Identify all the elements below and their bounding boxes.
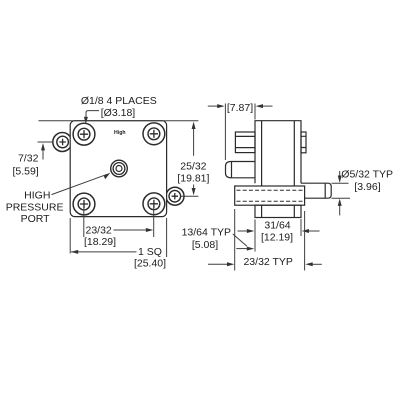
right tab inner lines (301, 136, 306, 147)
svg-text:PRESSURE: PRESSURE (6, 201, 64, 213)
svg-text:[3.96]: [3.96] (354, 181, 380, 193)
dim 1 SQ arrowhead left (71, 250, 78, 254)
left ear tab circle (53, 133, 72, 152)
svg-text:[12.19]: [12.19] (261, 232, 293, 244)
dim 23/32 TYP right arrow line (309, 263, 322, 265)
right ear tab circle (166, 187, 184, 205)
svg-text:25/32: 25/32 (180, 161, 206, 173)
svg-text:13/64 TYP: 13/64 TYP (182, 227, 231, 239)
svg-text:23/32 TYP: 23/32 TYP (243, 256, 292, 268)
svg-text:23/32: 23/32 (86, 224, 112, 236)
svg-text:[25.40]: [25.40] (134, 258, 166, 270)
right ear hole (169, 190, 181, 202)
hole TR (143, 123, 165, 145)
dim 7.87 left arrow line (208, 105, 221, 107)
ext line port bottom (332, 197, 351, 199)
ext line base plate left down (234, 209, 236, 271)
port tip cap (325, 183, 331, 198)
dia 5/32 upper arrow line (339, 171, 341, 176)
hole BL (73, 193, 95, 215)
dim 7/32 arrow line (42, 150, 44, 160)
svg-text:7/32: 7/32 (18, 152, 39, 164)
dim 13/64 leader diagonal (233, 234, 247, 246)
ext line base plate right down (304, 211, 306, 271)
dim 25/32 arrowhead down (192, 188, 196, 195)
dim 31/64 arrowhead left (302, 229, 309, 233)
dim 7.87 arrowhead right (217, 104, 224, 108)
dim 31/64 left arrow line (238, 230, 251, 232)
dim 13/64 arrowhead lower (247, 247, 254, 251)
dim 7/32 arrowhead up (41, 143, 45, 150)
hole BR (143, 193, 165, 215)
left stub boss (226, 162, 256, 178)
svg-text:[19.81]: [19.81] (177, 173, 209, 185)
port tube (301, 183, 325, 198)
dim 23/32 TYP arrowhead left (305, 262, 312, 266)
svg-text:[7.87]: [7.87] (227, 102, 253, 114)
body inner line left (261, 121, 263, 186)
ext line hole BL down (83, 206, 85, 237)
leader to hole TL (86, 111, 99, 120)
terminal block (235, 132, 255, 153)
ext line lower body left (254, 220, 256, 234)
dim 23/32 arrowhead right (146, 228, 153, 232)
dim 31/64 right arrow line (305, 230, 319, 232)
extension line left ear center (38, 141, 54, 143)
hole TL (73, 123, 95, 145)
svg-text:Ø1/8 4 PLACES: Ø1/8 4 PLACES (81, 95, 157, 107)
base plate edge-on (235, 186, 305, 205)
svg-text:PORT: PORT (21, 213, 51, 225)
svg-text:[5.08]: [5.08] (192, 239, 218, 251)
left ear hole (57, 136, 69, 148)
dim 23/32 TYP left arrow line (208, 263, 231, 265)
stub cap line (231, 162, 233, 178)
dim 7.87 arrowhead left (256, 104, 263, 108)
ext line plate left down (69, 218, 71, 254)
lower body (255, 205, 301, 217)
ext line body left up (254, 104, 256, 120)
svg-text:31/64: 31/64 (264, 219, 290, 231)
ext line port top (332, 182, 349, 184)
dia 5/32 arrowhead up (338, 199, 342, 206)
terminal inner lines (235, 136, 255, 147)
body inner line right (293, 121, 295, 186)
ext line right ear center (181, 195, 199, 197)
center pressure port boss (111, 160, 128, 177)
svg-text:[18.29]: [18.29] (84, 236, 116, 248)
dim 13/64 lower arrow line (236, 248, 251, 250)
ext line stub left (224, 104, 226, 161)
dim 25/32 line lower (193, 185, 195, 190)
dim 25/32 line upper (193, 128, 195, 156)
dim 25/32 arrowhead up (192, 122, 196, 129)
dim 23/32 line (114, 229, 151, 231)
extension line plate top (7/32 and 25/32 refs) (39, 120, 199, 122)
dia 5/32 lower arrow line (339, 206, 341, 216)
ext line plate right down (166, 218, 168, 257)
svg-text:1 SQ: 1 SQ (138, 246, 162, 258)
dim 23/32 TYP arrowhead right (227, 262, 234, 266)
ext line body left down (13/64) (254, 222, 256, 252)
dim 7.87 right arrow line (259, 105, 273, 107)
base plate hidden line lower (237, 200, 304, 202)
svg-text:HIGH: HIGH (24, 189, 50, 201)
svg-text:[5.59]: [5.59] (12, 165, 38, 177)
ext line lower body right (300, 219, 302, 236)
svg-text:[Ø3.18]: [Ø3.18] (101, 107, 136, 119)
dim 1 SQ line (71, 251, 137, 253)
base plate hidden line upper (237, 189, 304, 191)
leader to center port (52, 174, 108, 194)
dim 31/64 arrowhead right (247, 229, 254, 233)
svg-text:High: High (114, 130, 126, 136)
dia 5/32 arrowhead down (338, 176, 342, 183)
leader arrowhead down (84, 117, 88, 124)
lower body inner lines (262, 205, 295, 217)
body outline (255, 121, 301, 184)
ext line hole BR down (153, 206, 155, 237)
svg-text:Ø5/32 TYP: Ø5/32 TYP (341, 168, 393, 180)
leader arrowhead to port (104, 173, 111, 180)
plate outline (70, 121, 166, 217)
right mounting tab (301, 132, 306, 153)
